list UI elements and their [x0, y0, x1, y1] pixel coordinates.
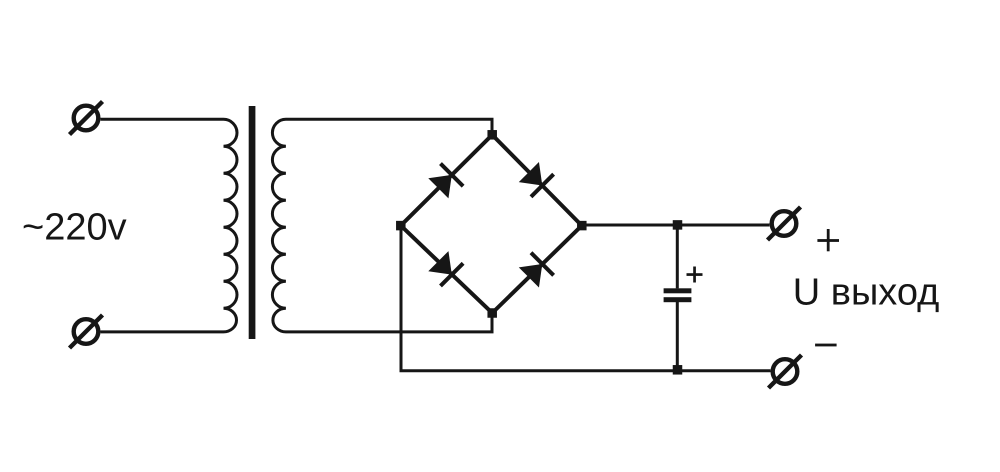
svg-text:~220v: ~220v	[22, 207, 127, 249]
svg-text:U выход: U выход	[793, 272, 940, 314]
